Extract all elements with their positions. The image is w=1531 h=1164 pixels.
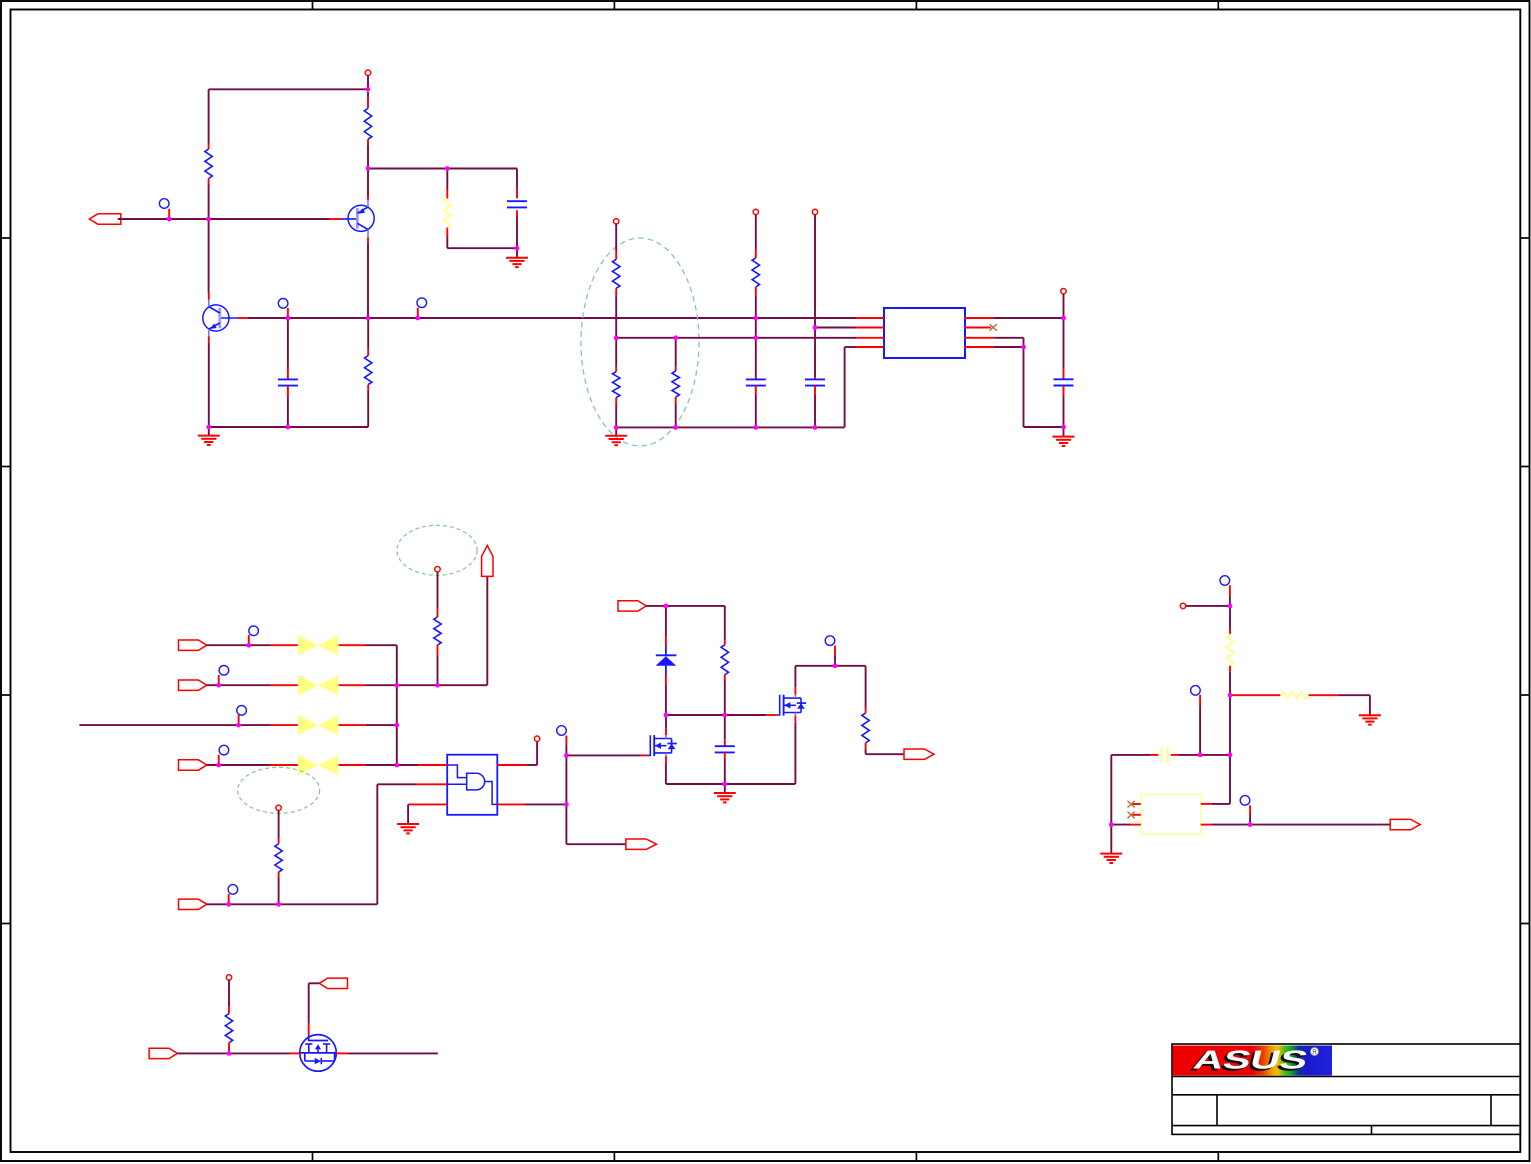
- gate pin in2: [417, 783, 448, 785]
- wire: [486, 576, 488, 685]
- wire: [308, 983, 310, 1024]
- wire: [287, 318, 289, 367]
- wire: [228, 980, 230, 1006]
- wire: [1369, 695, 1371, 715]
- wire: [1110, 825, 1112, 854]
- node: [753, 209, 758, 214]
- test point stub: [834, 646, 836, 656]
- ground: [1100, 853, 1122, 855]
- test point stub: [565, 736, 567, 745]
- gate feed red: [766, 714, 776, 716]
- wire: [516, 217, 518, 248]
- wire: [367, 391, 369, 427]
- wire: [447, 247, 517, 249]
- transistor Q2: [203, 293, 248, 344]
- wire pin2 rail: [815, 327, 856, 329]
- junction: [1021, 345, 1026, 350]
- resistor R5: [613, 250, 620, 296]
- wire: [376, 784, 378, 904]
- junction: [286, 425, 291, 430]
- ic U1 pin 5: [964, 346, 994, 348]
- wire bottom rail B: [616, 426, 844, 428]
- dashed ellipse highlight: [397, 525, 477, 575]
- junction: [227, 1051, 232, 1056]
- wire: [794, 666, 796, 688]
- junction: [833, 663, 838, 668]
- wire bottom rail D: [666, 783, 796, 785]
- junction: [276, 902, 281, 907]
- ground: [1053, 436, 1075, 438]
- ic U1: [884, 308, 965, 358]
- capacitor C4: [805, 377, 825, 395]
- resistor R15: [225, 1006, 232, 1050]
- wire: [615, 224, 617, 250]
- resistor R12: [862, 707, 869, 749]
- test point stub: [1229, 585, 1231, 596]
- wire: [1229, 596, 1231, 606]
- wire: [526, 764, 537, 766]
- svg-text:R: R: [1312, 1050, 1317, 1056]
- wire: [615, 405, 617, 428]
- junction: [286, 316, 291, 321]
- junction: [445, 166, 450, 171]
- junction: [246, 643, 251, 648]
- resistor R6: [613, 367, 620, 405]
- wire: [665, 763, 667, 784]
- wire: [814, 215, 816, 328]
- wire: [1023, 347, 1025, 427]
- wire: [615, 338, 617, 367]
- test point circle: [237, 706, 247, 716]
- wire: [665, 715, 667, 728]
- test point circle: [219, 666, 229, 676]
- resistor R4: [365, 350, 372, 391]
- mosfet Q3: [647, 728, 677, 763]
- wire: [366, 684, 397, 686]
- wire bottom rail A: [209, 426, 368, 428]
- test point circle: [219, 745, 229, 755]
- wire: [447, 168, 517, 170]
- ic U3 pin b: [1132, 814, 1141, 816]
- mosfet Q5: [290, 1024, 348, 1071]
- junction: [515, 246, 520, 251]
- junction: [206, 217, 211, 222]
- wire: [755, 215, 757, 250]
- node: [614, 219, 619, 224]
- junction: [366, 316, 371, 321]
- node: [226, 975, 231, 980]
- wire: [994, 337, 1023, 339]
- node: [1180, 603, 1185, 608]
- and gate U2: [447, 755, 497, 815]
- input arrow IN3: [179, 760, 207, 770]
- ic U1 pin 6: [964, 337, 994, 339]
- wire: [1229, 606, 1231, 629]
- junction: [1109, 822, 1114, 827]
- junction: [1061, 316, 1066, 321]
- test point circle: [228, 885, 238, 895]
- wire: [208, 185, 210, 288]
- wire: [446, 169, 448, 190]
- resistor R11: [721, 640, 728, 681]
- wire: [1250, 824, 1391, 826]
- flag arrow: [319, 978, 347, 988]
- ic U1 pin 7: [964, 327, 991, 329]
- junction: [366, 87, 371, 92]
- gate pin out2: [497, 803, 525, 805]
- wire: [615, 296, 617, 338]
- junction: [216, 763, 221, 768]
- junction: [614, 336, 619, 341]
- wire rail2: [616, 337, 856, 339]
- wire: [724, 759, 726, 784]
- wire: [1338, 694, 1370, 696]
- gate pin gnd: [408, 803, 447, 805]
- dashed ellipse highlight: [238, 767, 320, 813]
- test point circle: [557, 726, 567, 736]
- no-connect X: [1128, 801, 1135, 808]
- dashed ellipse highlight: [581, 238, 699, 446]
- wire: [1229, 695, 1231, 755]
- ic U1 pin 3: [856, 337, 884, 339]
- test point circle: [1240, 796, 1250, 806]
- resistor R13: [1226, 629, 1233, 671]
- junction: [1228, 693, 1233, 698]
- no-connect X: [990, 324, 997, 331]
- junction: [564, 753, 569, 758]
- wire: [675, 405, 677, 428]
- ic U1 pin 2: [856, 327, 884, 329]
- wire: [366, 764, 397, 766]
- junction: [226, 902, 231, 907]
- wire: [844, 347, 846, 427]
- junction: [366, 166, 371, 171]
- wire: [794, 723, 796, 784]
- wire: [724, 606, 726, 640]
- wire: [724, 784, 726, 793]
- wire: [993, 317, 1063, 319]
- junction: [1061, 425, 1066, 430]
- wire: [814, 328, 816, 378]
- wire emitter down: [367, 245, 369, 319]
- wire: [1229, 755, 1231, 804]
- diode pair D4: [270, 715, 366, 735]
- ground: [397, 823, 419, 825]
- wire: [1179, 754, 1230, 756]
- wire: [367, 75, 369, 89]
- wire: [348, 1052, 438, 1054]
- test point stub: [238, 715, 240, 725]
- transistor Q1: [329, 195, 374, 245]
- wire: [377, 783, 416, 785]
- wire: [1111, 824, 1130, 826]
- test point circle: [1220, 576, 1230, 586]
- wire mid rail: [666, 714, 766, 716]
- wire: [208, 427, 210, 435]
- junction: [394, 683, 399, 688]
- junction: [753, 425, 758, 430]
- capacitor C2: [507, 189, 527, 217]
- resistor R7: [672, 366, 679, 405]
- junction: [1228, 604, 1233, 609]
- wire: [1063, 318, 1065, 369]
- wire: [1063, 395, 1065, 427]
- output arrow OUT2: [626, 839, 657, 849]
- node: [276, 805, 281, 810]
- ic U1 pin 4: [856, 346, 884, 348]
- test point circle: [159, 199, 169, 209]
- wire: [407, 804, 409, 823]
- junction: [813, 325, 818, 330]
- test point stub: [1199, 695, 1201, 706]
- wire: [1063, 294, 1065, 318]
- wire: [1110, 755, 1112, 825]
- junction: [415, 316, 420, 321]
- wire: [1230, 694, 1281, 696]
- wire: [309, 982, 320, 984]
- wire: [814, 395, 816, 427]
- svg-text:ASUS: ASUS: [1191, 1045, 1311, 1075]
- junction: [664, 604, 669, 609]
- test point stub: [218, 675, 220, 685]
- diode pair D5: [270, 755, 366, 775]
- gate feed red: [641, 754, 647, 756]
- wire: [207, 764, 270, 766]
- ic U1 pin 1: [856, 317, 884, 319]
- wire: [287, 398, 289, 427]
- junction: [722, 713, 727, 718]
- resistor R2: [364, 98, 371, 145]
- wire: [368, 168, 447, 170]
- wire: [646, 605, 725, 607]
- test point stub: [287, 308, 289, 318]
- wire: [566, 843, 626, 845]
- ground: [714, 792, 736, 794]
- capacitor C6: [715, 739, 735, 759]
- test point stub: [248, 635, 250, 645]
- wire: [1023, 338, 1025, 347]
- ic U3 pin c: [1130, 824, 1141, 826]
- wire row3: [79, 724, 270, 726]
- wire rail1 long: [248, 317, 856, 319]
- resistor R10: [275, 838, 282, 878]
- diode pair D3: [270, 675, 366, 695]
- output arrow OUT1: [89, 214, 120, 224]
- input arrow IN5: [618, 601, 646, 611]
- wire: [516, 248, 518, 257]
- wire: [1111, 754, 1150, 756]
- node VCC top: [365, 70, 370, 75]
- no-connect X: [1128, 812, 1135, 819]
- wire: [1186, 605, 1230, 607]
- wire: [446, 237, 448, 249]
- wire: [177, 1052, 289, 1054]
- wire: [278, 878, 280, 905]
- mosfet Q4: [776, 688, 806, 723]
- capacitor C1: [278, 367, 298, 398]
- wire gate Q3 feed: [566, 754, 640, 756]
- junction: [435, 683, 440, 688]
- junction: [664, 713, 669, 718]
- wire: [565, 804, 567, 844]
- ic U3: [1141, 794, 1201, 834]
- wire: [207, 684, 270, 686]
- junction: [167, 217, 172, 222]
- junction: [813, 425, 818, 430]
- input arrow IN6: [149, 1048, 177, 1058]
- node: [1061, 289, 1066, 294]
- wire top rail D: [795, 665, 865, 667]
- junction: [1228, 753, 1233, 758]
- title block grid: [1172, 1044, 1520, 1134]
- junction: [206, 425, 211, 430]
- wire input net: [118, 218, 329, 220]
- node: [435, 567, 440, 572]
- wire: [865, 666, 867, 707]
- wire: [1199, 706, 1201, 755]
- capacitor C7: [1150, 747, 1179, 763]
- resistor R3: [444, 189, 451, 237]
- input arrow IN4: [179, 899, 207, 909]
- wire: [367, 145, 369, 195]
- output arrow OUT3: [904, 749, 934, 759]
- wire: [724, 681, 726, 716]
- resistor R14: [1281, 692, 1339, 699]
- wire: [675, 338, 677, 366]
- power arrow: [482, 546, 493, 577]
- diode D1: [656, 636, 677, 684]
- wire: [367, 318, 369, 350]
- wire: [366, 724, 397, 726]
- wire: [536, 741, 538, 765]
- wire: [1211, 824, 1250, 826]
- node: [534, 736, 539, 741]
- wire: [366, 644, 397, 646]
- resistor R1: [205, 143, 212, 185]
- ic U3 pin a: [1132, 803, 1141, 805]
- wire: [615, 427, 617, 435]
- wire: [397, 764, 418, 766]
- input arrow IN2: [179, 680, 207, 690]
- wire: [1229, 671, 1231, 695]
- wire: [994, 346, 1023, 348]
- wire: [755, 395, 757, 427]
- junction: [1248, 822, 1253, 827]
- wire bus: [396, 645, 398, 765]
- wire: [1211, 803, 1230, 805]
- ground: [605, 435, 627, 437]
- junction: [394, 723, 399, 728]
- test point circle: [417, 298, 427, 308]
- wire pin4 rail: [845, 346, 856, 348]
- ASUS logo: [1173, 1045, 1333, 1077]
- input arrow IN1: [179, 640, 207, 650]
- test point stub: [1249, 805, 1251, 814]
- wire: [755, 295, 757, 377]
- junction: [394, 763, 399, 768]
- wire: [516, 169, 518, 190]
- test point circle: [278, 299, 288, 309]
- output arrow OUT4: [1390, 819, 1420, 829]
- wire: [724, 715, 726, 739]
- ground: [506, 257, 528, 259]
- junction: [564, 802, 569, 807]
- junction: [236, 723, 241, 728]
- wire bottom row: [207, 903, 377, 905]
- test point stub: [218, 755, 220, 765]
- ic U1 pin 8: [964, 317, 993, 319]
- junction: [1198, 753, 1203, 758]
- wire: [437, 572, 439, 609]
- test point circle: [1191, 686, 1201, 696]
- junction: [722, 782, 727, 787]
- gate pin in1: [418, 764, 447, 766]
- wire top rail: [209, 88, 368, 90]
- ground: [198, 435, 220, 437]
- wire: [865, 749, 867, 755]
- wire: [278, 811, 280, 839]
- wire: [665, 606, 667, 636]
- wire: [437, 656, 439, 686]
- wire: [208, 344, 210, 428]
- resistor R9: [434, 609, 441, 656]
- test point circle: [825, 636, 835, 646]
- junction: [753, 335, 758, 340]
- wire left rail upper: [208, 89, 210, 143]
- ic U3 pin d: [1201, 803, 1212, 805]
- ground: [1359, 714, 1381, 716]
- wire: [866, 753, 905, 755]
- gate pin out1: [497, 764, 526, 766]
- test point circle: [249, 626, 259, 636]
- wire: [525, 803, 566, 805]
- wire: [834, 656, 836, 666]
- junction: [216, 683, 221, 688]
- test point stub: [168, 209, 170, 219]
- junction: [753, 316, 758, 321]
- wire: [665, 685, 667, 715]
- wire: [1249, 815, 1251, 825]
- wire: [1063, 427, 1065, 436]
- test point stub: [417, 308, 419, 318]
- resistor R8: [752, 250, 759, 296]
- wire: [208, 288, 210, 294]
- junction: [673, 335, 678, 340]
- junction: [614, 425, 619, 430]
- ic U3 pin e: [1201, 824, 1212, 826]
- wire: [438, 684, 488, 686]
- wire: [228, 1050, 230, 1053]
- wire: [367, 92, 369, 98]
- node: [812, 209, 817, 214]
- wire: [1024, 426, 1064, 428]
- capacitor C3: [746, 377, 766, 395]
- test point stub: [228, 894, 230, 904]
- wire: [565, 744, 567, 804]
- wire: [207, 644, 270, 646]
- diode pair D2: [270, 635, 366, 655]
- capacitor C5: [1054, 369, 1074, 396]
- wire: [397, 684, 438, 686]
- junction: [673, 425, 678, 430]
